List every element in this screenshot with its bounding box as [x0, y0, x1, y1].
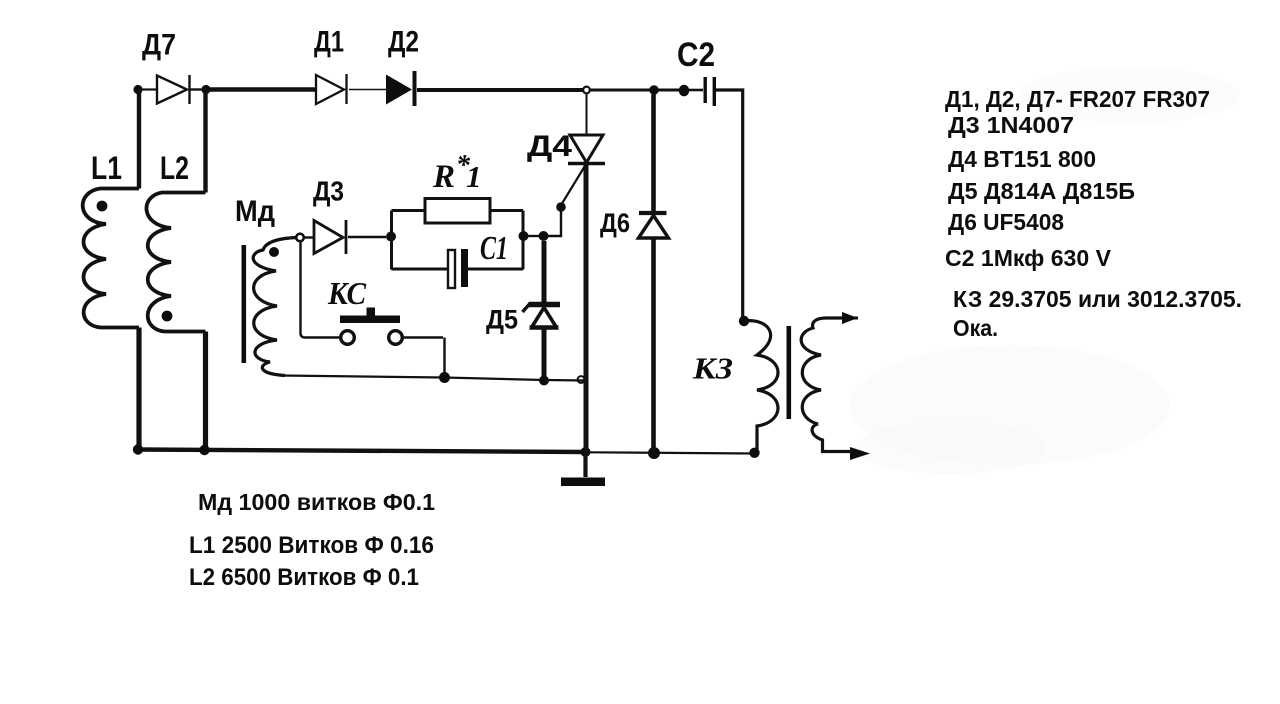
- arrow top: [840, 317, 858, 320]
- capacitor C1: [448, 250, 455, 288]
- svg-text:C1: C1: [480, 230, 508, 267]
- node KZ bottom: [749, 448, 759, 458]
- svg-text:L1: L1: [91, 150, 122, 186]
- svg-text:C2: C2: [677, 36, 715, 74]
- wire D1 to D2: [349, 89, 386, 91]
- bottom winding notes: [189, 489, 435, 591]
- svg-text:L2 6500 Витков Ф 0.1: L2 6500 Витков Ф 0.1: [189, 564, 419, 591]
- node ground junction: [581, 447, 591, 457]
- diode D2 (filled): [386, 75, 412, 105]
- R1 C1 parallel network frame: [392, 211, 524, 270]
- node D5 bottom: [539, 376, 549, 386]
- svg-text:Д1, Д2, Д7- FR207 FR307: Д1, Д2, Д7- FR207 FR307: [945, 86, 1210, 112]
- KZ primary top node: [739, 316, 749, 326]
- node ring (D4 anode tap): [583, 87, 590, 94]
- faint scan smudges (decorative): [850, 67, 1240, 474]
- svg-text:КЗ 29.3705 или 3012.3705.: КЗ 29.3705 или 3012.3705.: [953, 286, 1242, 312]
- node B: [201, 85, 210, 94]
- svg-text:КЗ: КЗ: [692, 351, 733, 386]
- node blob before C2: [679, 85, 689, 97]
- riser to KC switch: [301, 242, 341, 338]
- wire to D5 node: [527, 235, 543, 237]
- wire node B to D1: [210, 87, 315, 92]
- wire: [141, 88, 156, 90]
- svg-text:L1 2500 Витков Ф 0.16: L1 2500 Витков Ф 0.16: [189, 532, 434, 559]
- thyristor D4: [586, 94, 588, 136]
- svg-text:Д3: Д3: [313, 176, 344, 207]
- arrow bottom: [850, 447, 870, 460]
- wire: [658, 89, 680, 92]
- node A (top-left junction): [133, 85, 142, 94]
- KZ primary coil: [744, 321, 778, 450]
- svg-text:Ока.: Ока.: [953, 315, 998, 341]
- svg-text:Д6 UF5408: Д6 UF5408: [948, 209, 1064, 235]
- svg-text:C2 1Мкф 630 V: C2 1Мкф 630 V: [945, 245, 1112, 271]
- capacitor C2: [704, 77, 707, 103]
- wire C2 right then down to KZ: [716, 90, 743, 320]
- node bottom L2: [199, 445, 209, 455]
- Md core bar: [242, 245, 247, 363]
- svg-text:Мд: Мд: [235, 195, 275, 228]
- diode D3: [304, 236, 313, 238]
- svg-text:Д6: Д6: [600, 208, 630, 238]
- svg-text:Д5 Д814А Д815Б: Д5 Д814А Д815Б: [948, 178, 1135, 204]
- svg-text:Д4: Д4: [527, 130, 572, 163]
- KZ core: [787, 326, 792, 419]
- svg-text:Д4 BT151 800: Д4 BT151 800: [948, 146, 1096, 172]
- L1 polarity dot: [97, 201, 108, 212]
- Md top terminal circle: [296, 234, 304, 242]
- svg-text:R*1: R*1: [432, 150, 482, 195]
- wire: [689, 89, 703, 92]
- svg-text:Д7: Д7: [142, 29, 176, 62]
- gate stub wires: [547, 209, 561, 236]
- diode D7: [157, 75, 202, 104]
- zener D5: [542, 241, 547, 302]
- diode D6: [651, 95, 656, 212]
- right component list: [945, 86, 1242, 341]
- coil Md: [253, 238, 297, 376]
- node D5 top: [539, 231, 549, 241]
- thin bottom wire to KZ: [589, 452, 754, 453]
- node D6 bottom: [648, 447, 660, 459]
- ground: [583, 452, 587, 477]
- svg-text:Д1: Д1: [314, 26, 344, 59]
- L2 polarity dot: [162, 311, 173, 322]
- coil L1: [83, 90, 139, 450]
- node R1C1 left: [386, 232, 396, 242]
- node D6 top: [649, 85, 659, 95]
- node R1C1 right: [519, 231, 529, 241]
- resistor R1: [425, 199, 490, 224]
- node bottom L1: [133, 444, 143, 454]
- bottom main wire: [136, 450, 586, 453]
- KZ secondary coil: [801, 318, 850, 452]
- wire ring to D6 node: [590, 89, 650, 92]
- Md polarity dot: [269, 247, 279, 257]
- coil L2: [146, 90, 205, 451]
- svg-text:Д3 1N4007: Д3 1N4007: [948, 112, 1074, 138]
- svg-text:КС: КС: [327, 275, 367, 311]
- bottom thin wire Md to D4 cathode line: [281, 376, 586, 381]
- svg-text:Д5: Д5: [486, 305, 518, 335]
- switch KC: [340, 316, 400, 324]
- gate node dot: [556, 202, 566, 212]
- node KC bottom: [439, 372, 450, 383]
- wire D2 to D4 ring: [417, 88, 583, 92]
- svg-text:Д2: Д2: [388, 26, 419, 59]
- svg-text:Мд 1000 витков Ф0.1: Мд 1000 витков Ф0.1: [198, 489, 435, 515]
- diode D1: [316, 74, 347, 104]
- svg-text:L2: L2: [160, 150, 189, 186]
- gate diagonal to D4: [562, 165, 586, 204]
- small ring where bottom wire meets D4 line: [578, 376, 585, 383]
